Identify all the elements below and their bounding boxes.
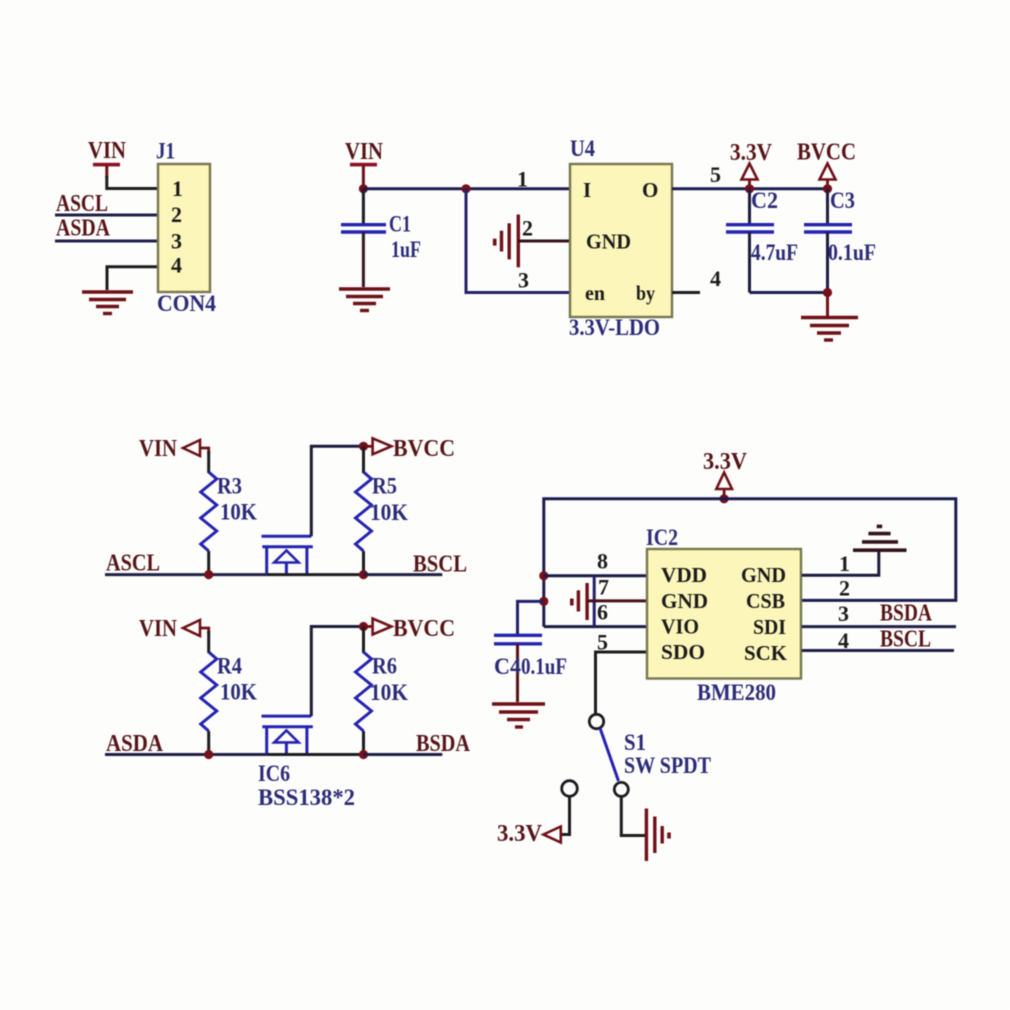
transistor Q1 (half of BSS138*2) — [262, 536, 313, 574]
node: ASCL / R3 junction — [204, 570, 213, 579]
wire U4 output (pin 5) to BVCC — [672, 187, 828, 190]
power symbol VIN (bar) — [93, 163, 120, 178]
svg-text:1: 1 — [839, 551, 850, 576]
svg-text:1: 1 — [517, 167, 528, 192]
wire ASCL — [105, 573, 267, 576]
svg-text:2: 2 — [839, 576, 850, 601]
op-amp U4 regulator box — [569, 136, 672, 340]
wire ASCL to J1 pin 2 — [55, 214, 158, 217]
IC2 BME280 box — [646, 525, 801, 705]
svg-text:IC2: IC2 — [646, 525, 678, 550]
svg-text:R4: R4 — [217, 654, 242, 679]
svg-text:ASDA: ASDA — [56, 216, 111, 242]
node: BVCC / R5 junction — [359, 442, 368, 451]
svg-text:BSDA: BSDA — [880, 601, 933, 627]
power arrow BVCC (right) — [364, 438, 392, 454]
svg-text:1uF: 1uF — [391, 237, 421, 262]
svg-text:O: O — [642, 178, 658, 202]
wire VIO (pin 6) — [544, 625, 647, 628]
sideways ground (IC2 GND pin 7) — [572, 583, 587, 620]
svg-text:BME280: BME280 — [697, 680, 776, 705]
wire VIN arrow to R4 — [207, 631, 210, 653]
svg-text:IC6: IC6 — [258, 761, 290, 786]
wire ASDA — [105, 753, 267, 756]
svg-text:C4: C4 — [494, 654, 521, 679]
svg-text:GND: GND — [661, 589, 708, 613]
svg-text:SW SPDT: SW SPDT — [624, 753, 711, 778]
power arrow 3.3V — [716, 473, 732, 498]
node B: junction to en — [461, 184, 470, 193]
svg-text:10K: 10K — [220, 680, 257, 705]
node: ASDA / R4 junction — [204, 750, 213, 759]
svg-text:by: by — [636, 281, 655, 305]
svg-text:ASCL: ASCL — [106, 551, 160, 577]
svg-text:3: 3 — [838, 601, 849, 626]
svg-text:VIN: VIN — [345, 139, 384, 165]
node A: VIN junction — [359, 184, 368, 193]
wire C4 tap — [518, 601, 544, 634]
svg-text:SCK: SCK — [744, 641, 788, 665]
node: BSDA / R6 junction — [359, 750, 368, 759]
svg-text:5: 5 — [597, 630, 608, 655]
wire junction B down to en (pin 3) — [466, 189, 570, 293]
wire gate up to BVCC rail — [311, 446, 363, 536]
power arrow 3.3V (left) — [543, 827, 560, 843]
node: BVCC junction — [823, 184, 832, 193]
connector J1 CON4 — [156, 139, 216, 317]
svg-text:CSB: CSB — [746, 589, 785, 613]
svg-text:I: I — [583, 178, 591, 202]
wire gate up to BVCC rail — [311, 627, 363, 717]
svg-text:6: 6 — [597, 600, 608, 625]
ground (C1) — [339, 289, 390, 311]
transistor Q2 (half of BSS138*2) IC6 — [262, 716, 313, 754]
node: ground junction — [823, 288, 832, 297]
svg-text:0.1uF: 0.1uF — [521, 654, 567, 679]
ground (C2/C3) — [801, 318, 858, 341]
svg-text:VIN: VIN — [88, 138, 127, 164]
svg-text:BVCC: BVCC — [797, 140, 856, 166]
wire SDI (pin 3) BSDA — [802, 625, 956, 628]
svg-text:C3: C3 — [830, 188, 855, 213]
wire VIN arrow to R3 — [207, 451, 210, 473]
wire VDD (pin 8) — [544, 574, 647, 577]
svg-text:5: 5 — [710, 162, 721, 187]
svg-text:BSDA: BSDA — [416, 731, 471, 757]
svg-text:10K: 10K — [370, 500, 408, 525]
svg-text:GND: GND — [586, 230, 631, 254]
svg-text:R5: R5 — [372, 474, 397, 499]
svg-text:0.1uF: 0.1uF — [828, 240, 876, 265]
svg-text:BVCC: BVCC — [393, 436, 455, 462]
svg-text:2: 2 — [171, 202, 182, 227]
power arrow BVCC — [820, 164, 836, 188]
svg-text:SDI: SDI — [753, 615, 786, 639]
wire ASDA to J1 pin 3 — [55, 240, 158, 243]
resistor R3 — [201, 472, 257, 551]
capacitor C2 — [726, 188, 798, 293]
svg-text:4.7uF: 4.7uF — [751, 240, 798, 265]
svg-text:ASCL: ASCL — [56, 191, 108, 217]
wire switch common to ground — [621, 797, 645, 836]
wire VIN to U4 pin 1 (I) — [363, 187, 570, 190]
svg-text:BVCC: BVCC — [393, 616, 455, 642]
power symbol VIN (bar) — [350, 163, 377, 186]
svg-text:R6: R6 — [372, 654, 397, 679]
wire VIN to J1 pin 1 — [107, 176, 158, 189]
svg-text:3.3V: 3.3V — [730, 140, 773, 166]
svg-text:4: 4 — [710, 266, 721, 291]
power arrow BVCC (right) — [364, 619, 392, 635]
ground (J1) — [82, 292, 133, 314]
svg-text:4: 4 — [171, 253, 182, 278]
switch S1 SW SPDT — [562, 714, 711, 796]
power arrow VIN (left) — [183, 620, 209, 636]
wire BSDA — [364, 753, 443, 756]
wire SCK (pin 4) BSCL — [802, 649, 954, 652]
svg-text:8: 8 — [597, 549, 608, 574]
node: 3.3V junction on top rail — [720, 494, 729, 503]
resistor R6 — [356, 627, 409, 755]
wire C2 bottom to C3 bottom — [750, 291, 828, 294]
wire MOSFET middle to BSCL — [267, 573, 364, 576]
svg-text:GND: GND — [741, 563, 786, 587]
svg-text:3: 3 — [518, 268, 529, 293]
capacitor C1 — [341, 189, 421, 287]
svg-text:2: 2 — [522, 216, 533, 241]
ground (C4) — [492, 704, 545, 727]
sideways ground (S1, pointing right) — [646, 809, 669, 862]
node: VDD rail junction — [539, 571, 548, 580]
power arrow VIN (left) — [183, 440, 209, 456]
svg-text:en: en — [585, 281, 605, 305]
svg-text:10K: 10K — [370, 680, 408, 705]
svg-text:U4: U4 — [570, 136, 595, 161]
power arrow 3.3V — [742, 164, 758, 188]
node: C4 rail junction — [539, 597, 548, 606]
svg-text:CON4: CON4 — [157, 291, 216, 316]
wire top rail — [544, 499, 956, 627]
svg-text:C2: C2 — [751, 188, 778, 213]
resistor R4 — [201, 652, 257, 731]
wire SDO (pin 5) to switch — [596, 652, 648, 714]
wire GND pin 2 — [518, 240, 570, 243]
node: BVCC / R6 junction — [359, 622, 368, 631]
node: 3.3V junction — [745, 184, 754, 193]
svg-text:VIO: VIO — [661, 615, 699, 639]
wire R4 to ASDA — [207, 731, 210, 755]
svg-text:3.3V-LDO: 3.3V-LDO — [569, 315, 660, 340]
sideways ground (U4 GND pin 2) — [495, 215, 519, 268]
svg-text:VIN: VIN — [139, 436, 178, 462]
wire junction to ground — [826, 293, 829, 317]
wire U4 by (pin 4) stub — [672, 291, 700, 294]
svg-text:BSCL: BSCL — [880, 626, 931, 652]
node: BSCL / R5 junction — [359, 570, 368, 579]
inverted ground (pin 1) — [853, 526, 907, 550]
capacitor C4 — [494, 635, 567, 702]
svg-text:VDD: VDD — [661, 563, 707, 587]
wire switch throw to 3.3V — [561, 797, 570, 835]
svg-text:3.3V: 3.3V — [497, 821, 543, 847]
svg-text:C1: C1 — [389, 212, 411, 237]
svg-text:VIN: VIN — [139, 616, 178, 642]
svg-text:BSS138*2: BSS138*2 — [258, 785, 355, 810]
wire GND (pin 1) to ground — [802, 551, 879, 575]
svg-text:SDO: SDO — [661, 640, 705, 664]
wire GND (pin 7) — [588, 599, 647, 602]
svg-text:3: 3 — [171, 229, 182, 254]
wire R3 to ASCL — [207, 551, 210, 575]
svg-text:J1: J1 — [156, 139, 175, 164]
wire J1 pin 4 to ground — [107, 267, 158, 290]
resistor R5 — [356, 446, 409, 574]
svg-text:R3: R3 — [217, 474, 242, 499]
wire tie VDD-VIO — [593, 576, 596, 627]
wire BSCL — [364, 573, 443, 576]
svg-text:BSCL: BSCL — [413, 552, 467, 578]
capacitor C3 — [804, 188, 876, 293]
svg-text:7: 7 — [598, 575, 609, 600]
svg-text:3.3V: 3.3V — [703, 449, 748, 475]
wire MOSFET middle to BSDA — [267, 753, 364, 756]
svg-text:1: 1 — [172, 176, 183, 201]
svg-text:S1: S1 — [624, 730, 646, 755]
svg-text:10K: 10K — [220, 500, 257, 525]
